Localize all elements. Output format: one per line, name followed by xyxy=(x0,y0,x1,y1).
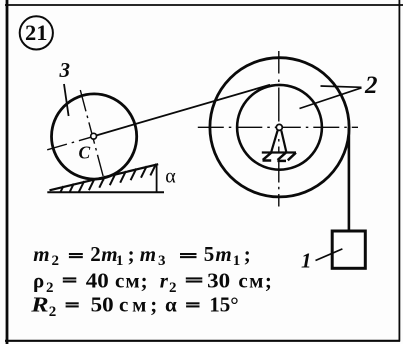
given data line 1 xyxy=(33,242,251,269)
cylinder 3 center pin C xyxy=(91,133,97,139)
pulley center pin xyxy=(276,124,282,130)
incline surface line xyxy=(50,164,159,190)
svg-text:3: 3 xyxy=(59,58,71,82)
pulley inner circle r2 xyxy=(237,85,322,170)
leader line for label 3 xyxy=(64,84,69,116)
incline hatching xyxy=(60,164,156,193)
pulley outer circle R2 xyxy=(210,58,349,197)
given data line 2 xyxy=(33,269,273,296)
string from cylinder center to pulley small step xyxy=(94,85,270,136)
pivot ground hatching xyxy=(263,153,296,161)
string from pulley rim down to load xyxy=(348,127,351,230)
svg-text:α: α xyxy=(165,166,176,188)
leader lines for label 2 xyxy=(321,86,362,87)
cylinder 3 axis parallel to incline (dash-dot) xyxy=(47,137,91,150)
cylinder 3 outline xyxy=(52,94,137,179)
svg-text:2: 2 xyxy=(364,72,378,99)
pulley vertical center line (dash-dot) xyxy=(278,51,280,207)
pivot ground line xyxy=(262,151,296,153)
svg-text:C: C xyxy=(79,142,91,162)
svg-text:21: 21 xyxy=(25,20,48,45)
cylinder 3 axis perpendicular to incline (dash-dot) xyxy=(80,90,104,181)
pivot support triangle legs xyxy=(271,131,278,153)
incline base line xyxy=(47,191,164,193)
svg-text:1: 1 xyxy=(301,248,312,272)
incline vertical side xyxy=(156,164,158,193)
problem number badge 21 xyxy=(20,16,53,49)
pulley horizontal center line (dash-dot) xyxy=(198,126,358,128)
leader line for label 1 xyxy=(316,249,343,261)
load box 1 xyxy=(332,231,365,268)
svg-text:R: R xyxy=(30,294,48,317)
given data line 3 xyxy=(30,293,239,320)
